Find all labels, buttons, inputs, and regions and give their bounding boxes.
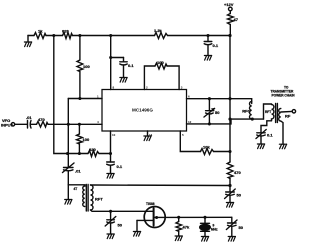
wire vertical to VFO node	[67, 99, 69, 168]
svg-text:47: 47	[234, 17, 239, 22]
ground	[133, 232, 140, 237]
wire top rail	[28, 35, 34, 37]
svg-text:RF: RF	[285, 114, 291, 119]
junction (156.6,217.5)	[155, 216, 158, 219]
wire	[73, 35, 155, 37]
wire	[214, 151, 231, 153]
resistor 820	[63, 33, 73, 39]
svg-text:1.2k: 1.2k	[154, 28, 163, 33]
pin numbers	[97, 86, 192, 138]
wire 10k branch	[180, 131, 200, 152]
capacitor 0.1 top right	[207, 36, 209, 42]
wire	[15, 123, 27, 125]
wire main +12V vertical	[229, 36, 231, 163]
trimmer capacitor 50 osc	[110, 211, 112, 220]
wire	[31, 123, 37, 125]
wire	[111, 57, 124, 59]
svg-text:RFT: RFT	[95, 197, 103, 202]
junction (230,119.1)	[228, 118, 231, 121]
transformer T2 primary	[264, 104, 272, 119]
junction (205,217.3)	[203, 216, 206, 219]
junction (209.4,98.7)	[208, 97, 211, 100]
resistor 100	[77, 60, 83, 72]
wire RF output	[281, 110, 292, 113]
resistor 100	[77, 134, 83, 144]
ground	[175, 236, 182, 241]
wire	[79, 72, 81, 99]
svg-text:820: 820	[62, 29, 69, 34]
ground	[226, 203, 233, 208]
ground	[67, 185, 69, 200]
svg-text:.01: .01	[26, 115, 32, 120]
svg-text:0.1: 0.1	[213, 43, 219, 48]
ground	[204, 56, 211, 61]
trimmer capacitor 50 mid	[208, 99, 210, 111]
junction (208,35.5)	[206, 34, 209, 37]
wire output pin 12	[187, 119, 232, 124]
transformer T1 secondary RFT	[91, 185, 94, 210]
wire	[231, 118, 264, 120]
+12V terminal	[229, 7, 233, 11]
junction (110.7,57.5)	[109, 56, 112, 59]
resistor 470	[37, 122, 49, 128]
svg-text:+12V: +12V	[224, 2, 234, 7]
svg-text:820: 820	[89, 147, 96, 152]
wire	[168, 35, 231, 37]
capacitor .01	[27, 121, 29, 129]
trimmer capacitor 50 bottom right	[231, 217, 233, 223]
wire pin14 ground	[147, 131, 149, 136]
wire vertical A	[54, 36, 88, 154]
wire collector bus	[154, 216, 232, 218]
ground	[279, 144, 286, 149]
junction (68.3,124.3)	[67, 123, 70, 126]
junction (53.8,35.5)	[52, 34, 55, 37]
ground	[107, 174, 114, 179]
svg-text:50: 50	[237, 193, 242, 198]
junction (79.4,153.5)	[78, 152, 81, 155]
ground	[201, 237, 208, 242]
transformer T2 secondary	[279, 109, 281, 122]
junction (110.6,211.3)	[109, 210, 112, 213]
junction (67.5,153.5)	[66, 152, 69, 155]
transformer T1 core	[85, 185, 87, 212]
svg-text:MHz: MHz	[211, 228, 218, 232]
resistor 47	[228, 14, 234, 25]
trimmer capacitor 50 right mid	[229, 186, 231, 193]
trimmer capacitor .01 left	[64, 167, 74, 169]
svg-text:470: 470	[234, 170, 241, 175]
wire	[78, 144, 80, 154]
resistor 1k	[34, 33, 46, 39]
resistor 100 loop	[144, 66, 155, 90]
svg-text:100: 100	[157, 60, 164, 65]
resistor 820	[88, 151, 99, 157]
svg-text:50: 50	[118, 223, 123, 228]
junction (110.5,153.5)	[109, 152, 112, 155]
ground	[257, 144, 264, 149]
junction (79.4,124.3)	[78, 123, 81, 126]
junction (230,98.7)	[228, 97, 231, 100]
svg-text:14: 14	[149, 133, 153, 137]
svg-text:RFC: RFC	[242, 109, 250, 114]
wire vertical 100ohm branch	[78, 124, 80, 134]
wire bottom bus	[91, 210, 154, 211]
junction (252.3,119.1)	[251, 118, 254, 121]
junction (230,35.5)	[228, 34, 231, 37]
capacitor 0.1	[107, 161, 115, 163]
svg-text:INPUT: INPUT	[1, 123, 14, 128]
svg-text:TIS88: TIS88	[146, 202, 155, 206]
ground	[144, 136, 151, 141]
svg-text:4T: 4T	[74, 187, 78, 191]
wire pin1 loop	[68, 98, 102, 100]
junction (230,185.5)	[228, 184, 231, 187]
svg-text:47k: 47k	[183, 225, 190, 230]
ground	[107, 234, 114, 239]
transistor Q1	[144, 207, 165, 228]
wire	[229, 179, 231, 186]
svg-text:10k: 10k	[203, 145, 210, 150]
svg-text:RFT: RFT	[265, 110, 271, 114]
svg-text:470: 470	[38, 117, 45, 122]
svg-text:0.1: 0.1	[128, 63, 134, 68]
svg-text:MC1496G: MC1496G	[132, 108, 153, 113]
capacitor 0.1	[123, 58, 125, 62]
resistor 470	[227, 162, 233, 179]
junction (110.7,35.5)	[109, 34, 112, 37]
wire secondary to ground	[281, 121, 283, 144]
junction (79.9,98.5)	[78, 97, 81, 100]
wire vertical C	[110, 36, 112, 90]
svg-text:0.1: 0.1	[267, 133, 273, 138]
svg-text:0.1: 0.1	[117, 164, 123, 169]
wire output pin 6	[187, 99, 252, 104]
resistor 10k	[201, 149, 214, 155]
resistor 1.2k	[155, 33, 168, 39]
junction (209.4,123.9)	[208, 122, 211, 125]
junction (79.9,35.5)	[78, 34, 81, 37]
svg-text:10: 10	[112, 133, 116, 137]
crystal Y1	[204, 217, 206, 223]
svg-text:1k: 1k	[38, 29, 43, 34]
transformer T2 core	[275, 104, 277, 123]
ground	[27, 36, 29, 43]
svg-text:.01: .01	[75, 169, 81, 174]
wire	[99, 153, 111, 155]
capacitor 0.1 T2	[257, 132, 265, 134]
ground	[228, 237, 235, 242]
svg-text:50: 50	[239, 225, 244, 230]
wire	[46, 35, 63, 37]
VFO input terminal	[11, 123, 14, 126]
wire vertical B	[79, 36, 81, 61]
ground	[120, 78, 127, 83]
svg-text:50: 50	[215, 110, 220, 115]
junction (178.7,217.3)	[177, 216, 180, 219]
junction (230,151.5)	[228, 150, 231, 153]
transformer T1 primary	[68, 185, 85, 207]
svg-text:POWER CHAIN: POWER CHAIN	[272, 94, 296, 98]
wire top bus	[91, 184, 231, 187]
terminal RF out	[292, 110, 295, 113]
svg-text:12: 12	[188, 120, 192, 124]
inductor RFC	[249, 102, 251, 120]
svg-text:100: 100	[83, 64, 90, 69]
wire	[48, 123, 102, 125]
resistor 47k	[178, 217, 180, 221]
svg-text:100: 100	[83, 137, 90, 142]
IC U1 MC1496	[102, 90, 187, 132]
wire pin bottom-left	[110, 131, 112, 162]
